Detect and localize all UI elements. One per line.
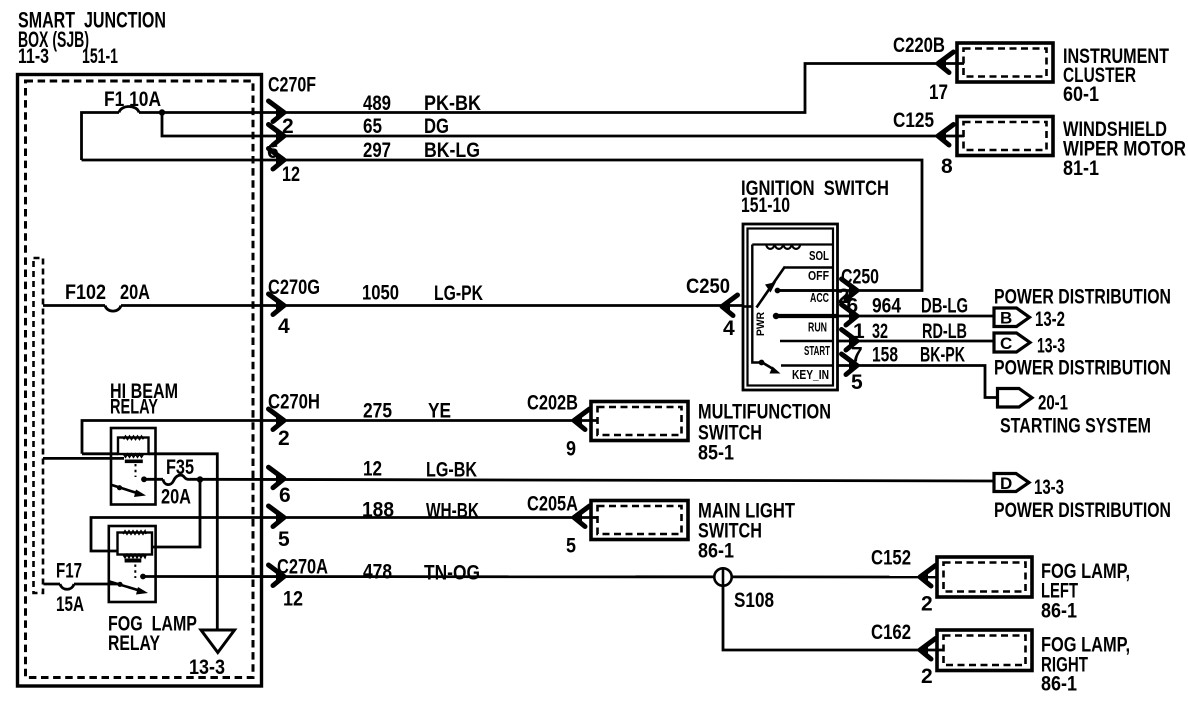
multifunction switch box xyxy=(591,401,831,465)
connector C270A pin 12 arrow xyxy=(269,556,329,611)
svg-text:F35: F35 xyxy=(166,456,194,479)
svg-text:151-10: 151-10 xyxy=(741,194,790,217)
svg-text:C270A: C270A xyxy=(277,556,328,579)
svg-text:15A: 15A xyxy=(56,593,84,616)
svg-text:5: 5 xyxy=(566,535,576,558)
connector C270F label xyxy=(268,74,316,97)
svg-text:C220B: C220B xyxy=(893,34,945,57)
power distribution label (top) xyxy=(994,286,1171,309)
connector C270F pin 2 arrow xyxy=(269,101,294,138)
svg-text:5: 5 xyxy=(278,528,290,551)
svg-text:SOL: SOL xyxy=(809,249,829,263)
main light switch box xyxy=(591,500,795,563)
svg-text:12: 12 xyxy=(283,588,303,611)
svg-text:86-1: 86-1 xyxy=(698,540,734,563)
svg-text:1050: 1050 xyxy=(362,282,399,305)
svg-text:8: 8 xyxy=(941,155,953,178)
label 151-1 xyxy=(82,45,118,68)
svg-text:MULTIFUNCTION: MULTIFUNCTION xyxy=(698,401,831,424)
windshield wiper motor box xyxy=(957,117,1186,181)
wire 297 BK-LG xyxy=(82,139,923,291)
fog lamp relay coil xyxy=(118,531,153,563)
svg-text:PWR: PWR xyxy=(755,312,767,336)
wire 478 TN-OG xyxy=(143,561,937,585)
svg-text:C: C xyxy=(1000,334,1012,353)
svg-text:BK-LG: BK-LG xyxy=(424,139,480,162)
ignition switch arm PWR xyxy=(757,267,786,308)
fog lamp relay label xyxy=(108,613,197,656)
svg-text:DG: DG xyxy=(424,115,449,138)
svg-text:1: 1 xyxy=(853,320,865,343)
hi beam relay switch arm xyxy=(111,485,146,497)
svg-text:C270H: C270H xyxy=(268,391,320,414)
svg-text:6: 6 xyxy=(847,295,859,318)
svg-text:20-1: 20-1 xyxy=(1038,392,1068,415)
ignition internal bus xyxy=(743,245,761,363)
svg-text:LG-BK: LG-BK xyxy=(426,459,477,482)
svg-text:65: 65 xyxy=(363,115,382,138)
hi beam relay coil feed (bus) xyxy=(43,457,124,460)
wire 1050 LG-PK xyxy=(121,282,743,306)
connector C250 output label xyxy=(841,266,879,289)
svg-text:151-1: 151-1 xyxy=(82,45,118,68)
svg-text:188: 188 xyxy=(362,499,394,522)
svg-text:13-3: 13-3 xyxy=(1034,476,1064,499)
svg-text:6: 6 xyxy=(279,484,291,507)
ignition contact OFF xyxy=(785,268,833,284)
connector C270F pin 6 arrow xyxy=(267,125,284,164)
label 11-3 xyxy=(18,45,49,68)
svg-text:RELAY: RELAY xyxy=(110,396,158,419)
svg-text:13-3: 13-3 xyxy=(1037,335,1065,358)
splice S108 xyxy=(714,568,774,612)
connector SJB pin 5 arrow xyxy=(269,506,291,551)
ignition contact ACC xyxy=(775,288,833,305)
svg-text:20A: 20A xyxy=(161,486,191,509)
instrument cluster box xyxy=(957,43,1169,106)
ignition coil to SOL xyxy=(752,245,833,264)
wire 964 DB-LG xyxy=(838,295,996,318)
hi beam relay contact xyxy=(141,476,147,482)
svg-text:20A: 20A xyxy=(120,281,150,304)
hi beam relay link xyxy=(135,464,137,477)
connector C250 pin 4 arrow xyxy=(686,275,738,340)
ignition key-in arm xyxy=(759,360,781,374)
power distribution label (lower) xyxy=(994,357,1171,380)
svg-text:C152: C152 xyxy=(871,547,911,570)
fuse F102 20A xyxy=(43,281,150,311)
svg-text:12: 12 xyxy=(363,458,382,481)
ignition contact RUN xyxy=(773,313,837,335)
svg-text:297: 297 xyxy=(363,139,391,162)
connector C202B pin 9 arrow xyxy=(527,392,590,461)
terminal D to 13-3 power distribution xyxy=(994,474,1171,523)
ignition switch box xyxy=(743,224,838,390)
svg-text:158: 158 xyxy=(872,344,898,367)
svg-text:5: 5 xyxy=(851,371,863,394)
label SMART JUNCTION BOX (SJB) xyxy=(18,8,166,53)
svg-text:POWER DISTRIBUTION: POWER DISTRIBUTION xyxy=(994,357,1171,380)
svg-text:81-1: 81-1 xyxy=(1063,157,1099,180)
hi beam relay box xyxy=(111,428,156,505)
wire F35 to fog relay coil xyxy=(152,480,200,548)
fog lamp relay contact xyxy=(140,574,146,580)
svg-text:RD-LB: RD-LB xyxy=(922,320,967,343)
svg-text:13-3: 13-3 xyxy=(189,656,225,679)
svg-text:POWER DISTRIBUTION: POWER DISTRIBUTION xyxy=(994,286,1171,309)
connector C250 pin 6 arrow xyxy=(842,295,859,326)
ignition contact START xyxy=(780,341,833,358)
connector C152 pin 2 arrow xyxy=(871,547,936,616)
svg-text:RELAY: RELAY xyxy=(108,632,160,655)
svg-text:DB-LG: DB-LG xyxy=(921,295,968,318)
terminal C to 13-3 xyxy=(994,333,1065,358)
hi beam relay coil ground lead xyxy=(149,454,218,630)
svg-text:478: 478 xyxy=(363,561,392,584)
connector SJB pin 6 arrow xyxy=(269,467,291,507)
junction F1 output node xyxy=(159,109,165,115)
svg-text:ACC: ACC xyxy=(810,291,829,305)
connector C162 pin 2 arrow xyxy=(871,621,936,688)
svg-text:9: 9 xyxy=(566,438,576,461)
wire 12 LG-BK xyxy=(144,458,995,482)
svg-text:PK-BK: PK-BK xyxy=(424,92,481,115)
svg-text:C270G: C270G xyxy=(268,276,320,299)
svg-text:C125: C125 xyxy=(893,109,934,132)
connector C250 pin 7 arrow xyxy=(842,344,863,375)
hi beam relay coil xyxy=(118,436,149,463)
svg-text:B: B xyxy=(1000,309,1012,328)
wire 65 DG xyxy=(162,113,964,139)
ignition switch label xyxy=(741,177,889,217)
fog lamp relay switch arm xyxy=(110,582,149,595)
svg-text:85-1: 85-1 xyxy=(698,442,734,465)
ignition PWR label xyxy=(755,312,767,336)
smart junction box SJB dashed boundary xyxy=(26,81,254,678)
svg-text:C162: C162 xyxy=(871,621,911,644)
fuse F35 20A xyxy=(161,456,194,509)
terminal B to 13-2 xyxy=(994,308,1065,331)
connector C270G pin 4 arrow xyxy=(268,276,320,338)
ground 13-3 xyxy=(189,630,235,679)
svg-text:YE: YE xyxy=(428,400,451,423)
svg-text:TN-OG: TN-OG xyxy=(424,562,480,585)
svg-text:964: 964 xyxy=(872,295,901,318)
svg-text:S108: S108 xyxy=(734,589,774,612)
connector C220B pin 17 arrow xyxy=(893,34,954,104)
svg-text:START: START xyxy=(804,344,830,358)
svg-text:11-3: 11-3 xyxy=(18,45,49,68)
connector C125 pin 8 arrow xyxy=(893,109,954,178)
svg-text:86-1: 86-1 xyxy=(1041,673,1077,696)
connector C250 pin 2 arrow xyxy=(838,279,857,308)
connector C270F pin 12 arrow xyxy=(269,149,301,187)
terminal 20-1 starting system xyxy=(998,389,1152,438)
svg-text:17: 17 xyxy=(929,81,948,104)
svg-text:2: 2 xyxy=(921,665,933,688)
svg-text:275: 275 xyxy=(363,400,392,423)
svg-text:KEY_IN: KEY_IN xyxy=(792,368,829,382)
wire 158 BK-PK xyxy=(838,344,999,398)
junction F35 node xyxy=(197,476,203,482)
hi beam relay coil left lead xyxy=(82,452,118,455)
svg-text:C270F: C270F xyxy=(268,74,316,97)
fog lamp right box xyxy=(937,630,1130,696)
connector C250 pin 1 arrow xyxy=(842,320,866,350)
svg-text:60-1: 60-1 xyxy=(1063,83,1099,106)
smart junction box SJB outer outline xyxy=(18,75,262,687)
svg-text:BK-PK: BK-PK xyxy=(920,344,965,367)
wire S108 to C162 xyxy=(723,586,944,651)
ignition contact KEY_IN xyxy=(781,366,833,383)
hi beam relay label xyxy=(110,380,178,419)
svg-text:2: 2 xyxy=(921,593,933,616)
wire 275 YE xyxy=(82,400,598,454)
svg-text:C205A: C205A xyxy=(527,493,578,516)
wire F1 feed leg xyxy=(82,113,120,161)
svg-text:C202B: C202B xyxy=(527,392,578,415)
fuse F17 15A xyxy=(44,560,119,617)
svg-text:F17: F17 xyxy=(56,560,82,583)
fog lamp left box xyxy=(937,557,1130,623)
fuse F1 10A xyxy=(104,88,161,113)
svg-text:C250: C250 xyxy=(686,275,730,298)
wire 489 PK-BK xyxy=(139,64,964,116)
svg-text:RUN: RUN xyxy=(808,321,827,335)
svg-text:4: 4 xyxy=(278,315,290,338)
wire 188 WH-BK xyxy=(91,499,598,552)
svg-text:12: 12 xyxy=(282,163,300,186)
connector C270H pin 2 arrow xyxy=(268,391,320,451)
svg-text:32: 32 xyxy=(872,320,888,343)
svg-text:2: 2 xyxy=(278,427,290,450)
svg-text:13-2: 13-2 xyxy=(1035,308,1065,331)
svg-text:F1 10A: F1 10A xyxy=(104,88,161,111)
svg-text:489: 489 xyxy=(363,92,391,115)
svg-text:WH-BK: WH-BK xyxy=(426,500,479,523)
connector C205A pin 5 arrow xyxy=(527,493,590,558)
svg-text:D: D xyxy=(1000,474,1012,493)
svg-text:POWER DISTRIBUTION: POWER DISTRIBUTION xyxy=(994,499,1171,522)
connector C250 pin 5 label xyxy=(851,371,863,394)
fog lamp relay link xyxy=(134,565,136,579)
SJB internal bus bar dashed outline xyxy=(34,258,44,593)
wire 32 RD-LB xyxy=(838,320,996,343)
svg-text:STARTING SYSTEM: STARTING SYSTEM xyxy=(1000,415,1151,438)
svg-text:7: 7 xyxy=(851,344,863,367)
svg-text:LG-PK: LG-PK xyxy=(434,282,483,305)
svg-text:F102: F102 xyxy=(65,281,106,304)
svg-text:86-1: 86-1 xyxy=(1041,600,1077,623)
svg-text:4: 4 xyxy=(723,317,735,340)
fog lamp relay box xyxy=(109,526,156,602)
svg-text:OFF: OFF xyxy=(808,269,829,283)
